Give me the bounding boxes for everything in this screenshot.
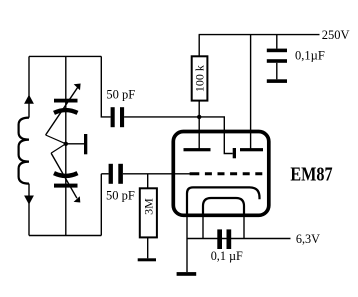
wire rail to right target plate — [250, 35, 252, 150]
svg-text:0,1µF: 0,1µF — [295, 48, 325, 62]
resistor R2 3M — [140, 174, 157, 258]
wire heater rail 6.3V — [187, 238, 291, 240]
capacitor C3 50pF (top) — [111, 107, 125, 127]
svg-text:50 pF: 50 pF — [106, 188, 135, 202]
svg-text:100 k: 100 k — [193, 65, 207, 92]
wire gang linkage bottom — [51, 144, 66, 153]
wire tank top — [29, 55, 101, 57]
wire HT rail — [199, 34, 320, 36]
tube U1 EM87 envelope — [173, 132, 268, 216]
ground (C4) — [267, 79, 287, 83]
capacitor C4 0,1uF (decoupling) — [267, 35, 287, 80]
wire heater pin left — [202, 214, 204, 239]
wire C3 to node B — [124, 116, 199, 118]
svg-text:250V: 250V — [322, 28, 350, 42]
tube fluorescent screen arch — [187, 187, 260, 214]
capacitor C5 50pF (grid) — [101, 164, 123, 184]
wire tank right top — [101, 56, 110, 117]
svg-text:0,1 µF: 0,1 µF — [211, 249, 243, 263]
capacitor C6 0,1uF (heater) — [217, 229, 231, 249]
wire node B to tube anode — [199, 117, 233, 154]
shaft bar of ganged tuning — [84, 134, 87, 154]
inductor L1 with coupling arrows — [19, 56, 34, 235]
svg-text:EM87: EM87 — [290, 164, 332, 185]
wire tank right bottom — [100, 174, 102, 236]
tube right target plate — [240, 148, 263, 151]
variable capacitor C1 (top gang) — [46, 84, 81, 136]
ground (screen) — [177, 272, 197, 276]
wire node B to tube target plate — [198, 117, 200, 150]
wire screen to ground — [186, 214, 188, 272]
wire heater pin right — [243, 215, 245, 239]
tube grid (dashed) — [190, 172, 263, 175]
svg-text:6,3V: 6,3V — [296, 232, 320, 246]
wire gang linkage top — [46, 135, 66, 144]
wire gang link — [66, 143, 84, 145]
wire tank middle column — [65, 56, 67, 235]
ground (R2) — [138, 258, 156, 261]
tube anode electrode — [233, 148, 236, 158]
tube cathode arch — [203, 198, 244, 215]
wire grid lead — [123, 173, 191, 175]
wire tank bottom — [29, 235, 101, 237]
node A (gang link junction) — [64, 142, 68, 146]
svg-text:50 pF: 50 pF — [106, 87, 135, 101]
resistor R1 100k — [192, 35, 208, 117]
svg-text:3M: 3M — [141, 198, 155, 215]
node B (anode junction) — [197, 115, 201, 119]
variable capacitor C2 (bottom gang) — [51, 153, 80, 202]
tube left target plate — [184, 148, 211, 151]
